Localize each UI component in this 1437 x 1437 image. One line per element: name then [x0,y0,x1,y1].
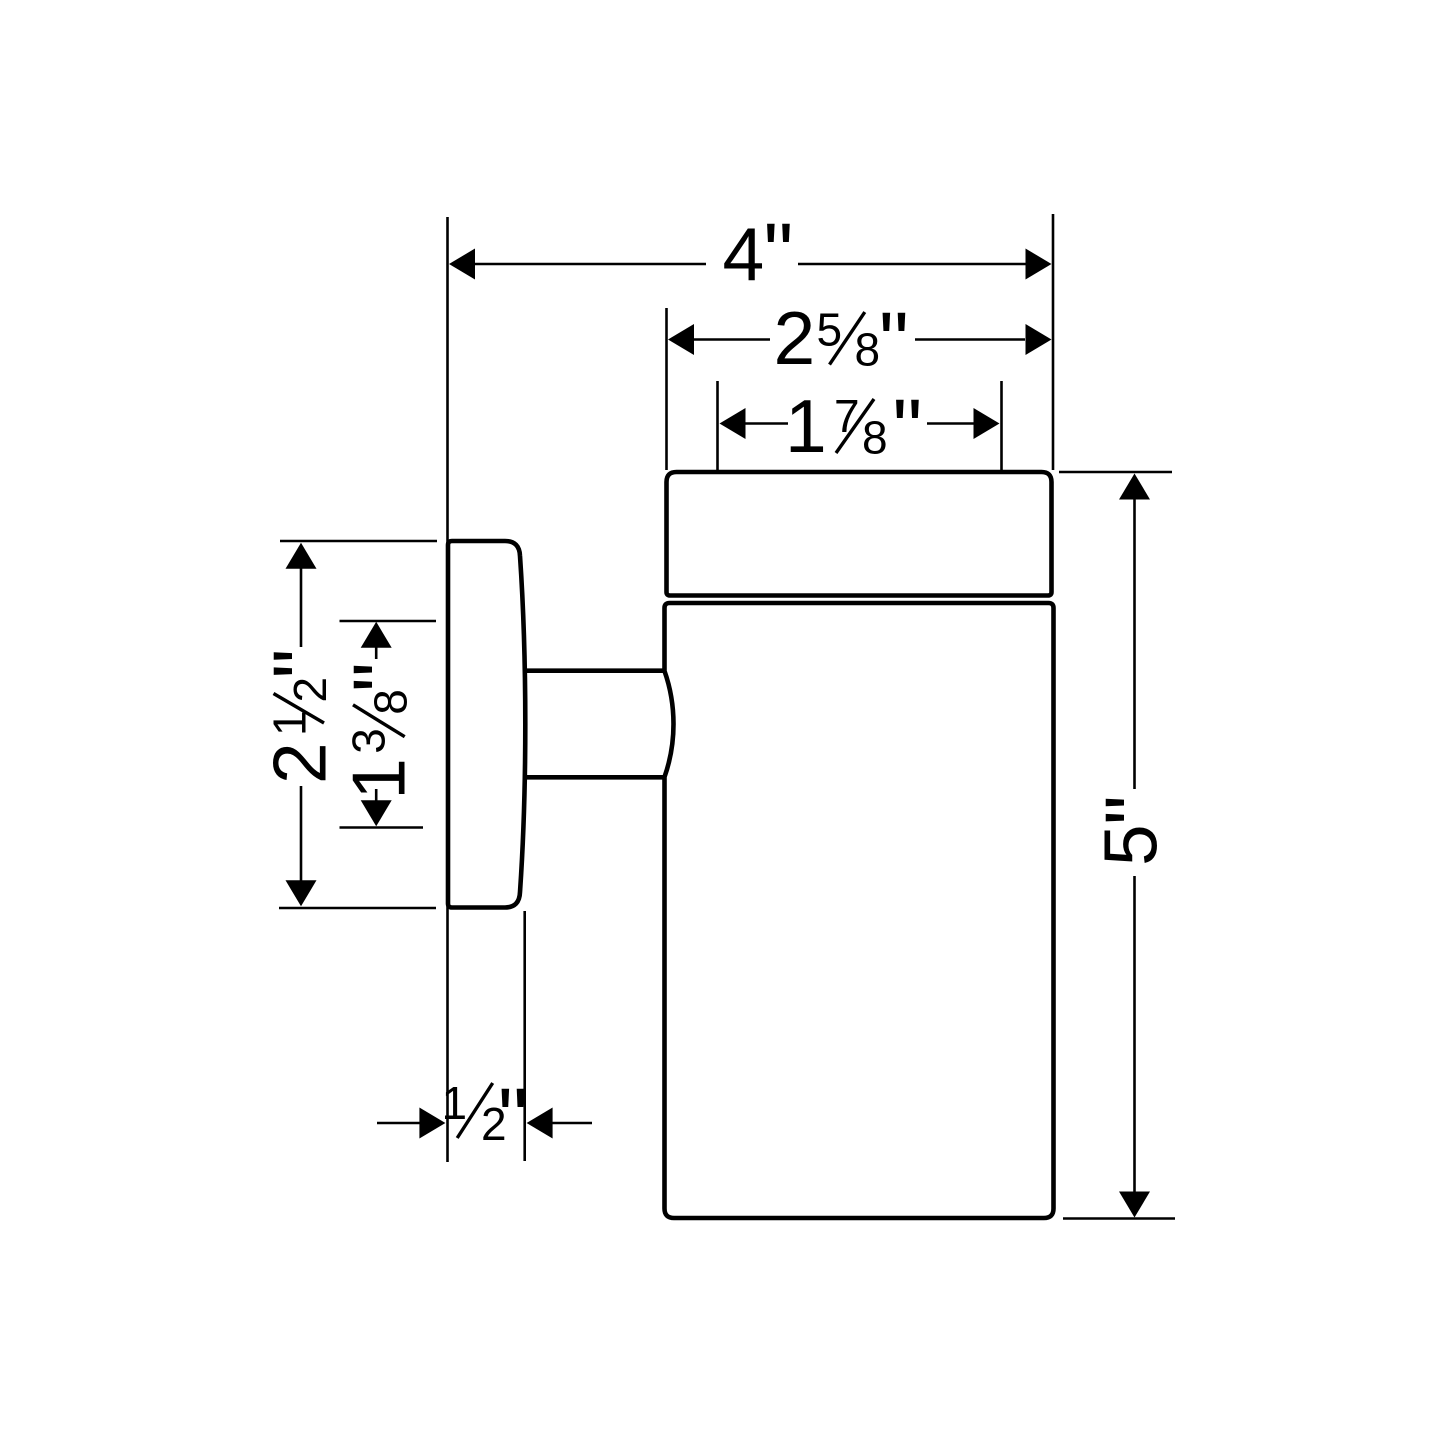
label 1 3/8: fraction slash [353,705,405,737]
svg-text:8: 8 [855,324,881,376]
dimension 1-7/8 line left segment [744,422,788,425]
dimension 4in line right segment [798,263,1038,266]
svg-text:": " [498,1071,528,1165]
svg-text:": " [879,295,909,389]
label 1 7/8: fraction slash [836,399,874,453]
svg-text:8: 8 [862,412,888,464]
dimension 1-3/8 line bottom segment [375,789,378,802]
dimension 2-5/8 line right segment [915,338,1025,341]
dimension 1/2 line left tail [377,1122,420,1125]
arrowhead 1/2 pointing left [527,1108,553,1139]
arrowhead 4in right [1026,249,1052,280]
svg-text:": " [893,382,923,476]
svg-text:2: 2 [257,742,341,784]
arrowhead 4in left [449,249,475,280]
arrowhead 2-1/2 down [286,880,317,906]
label 2 5/8: fraction slash [830,312,865,365]
wall extension line [446,217,449,1162]
dimension 5in line top segment [1133,498,1136,789]
tumbler body outline with stem fillet bulge [665,603,1054,1218]
svg-text:5: 5 [817,303,843,355]
extension line 1-7/8 left [716,381,719,470]
svg-text:5: 5 [1088,824,1172,866]
dimension 1-7/8 line right segment [927,422,975,425]
stem top line [523,668,664,673]
arrowhead 2-5/8 right [1026,324,1052,355]
dimension 2-1/2 line top segment [300,567,303,647]
svg-text:7: 7 [834,390,860,442]
arrowhead 1-3/8 down [361,800,392,826]
extension line 1-3/8 bottom [340,826,424,829]
extension line 2-1/2 top [280,540,437,543]
svg-text:2: 2 [284,677,336,703]
dimension 2-5/8 line left segment [692,338,770,341]
right extension line (4in / 2-5/8in) [1052,214,1055,470]
tumbler holder rim outline [667,472,1052,596]
arrowhead 1-3/8 up [361,622,392,648]
extension line 5in top [1059,471,1172,474]
arrowhead 1/2 pointing right [419,1108,445,1139]
arrowhead 5in up [1119,474,1150,500]
dimension 5in line bottom segment [1133,876,1136,1194]
extension line 2-5/8 left [665,308,668,470]
svg-text:": " [336,662,430,692]
extension line 1-7/8 right [1000,381,1003,470]
svg-text:3: 3 [343,728,395,754]
label 1/2: fraction slash [457,1083,493,1138]
dimension 1/2 line right tail [552,1122,592,1125]
svg-text:1: 1 [785,384,827,468]
arrowhead 2-1/2 up [286,543,317,569]
svg-text:": " [1088,795,1182,825]
extension line 5in bottom [1063,1217,1175,1220]
extension line 1-3/8 top [340,620,437,623]
svg-text:": " [764,206,794,300]
arrowhead 2-5/8 left [668,324,694,355]
arrowhead 1-7/8 left [720,408,746,439]
svg-text:1: 1 [337,758,421,800]
extension line 1/2 right [523,911,526,1161]
svg-text:2: 2 [774,296,816,380]
dimension 4in line left segment [462,263,706,266]
stem bottom line [523,775,664,780]
dimension 1-3/8 line top segment [375,646,378,659]
svg-text:1: 1 [442,1077,468,1129]
arrowhead 5in down [1119,1192,1150,1218]
svg-text:4: 4 [723,212,765,296]
dimension 2-1/2 line bottom segment [300,786,303,882]
arrowhead 1-7/8 right [974,408,1000,439]
label 2 1/2: fraction slash [274,694,325,724]
svg-text:8: 8 [365,689,417,715]
extension line 2-1/2 bottom [279,907,436,910]
wall plate outline [448,541,525,908]
